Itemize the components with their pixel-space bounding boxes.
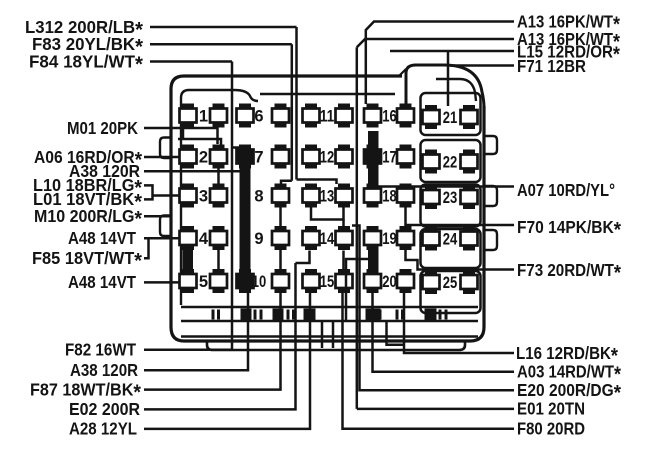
svg-text:14: 14 — [320, 230, 335, 248]
terminal 25 cavity box — [421, 271, 481, 313]
right mounting tab middle — [484, 186, 497, 206]
wire col4 bar elbow lower — [346, 259, 368, 322]
shell inner wall middle top edge — [260, 93, 395, 96]
wire terminal4-5 right clip chain — [217, 250, 220, 270]
wire L10/L01 bracket — [144, 185, 153, 199]
wire L312 horizontal — [150, 26, 297, 29]
black link bar col2 (terminals 7-10) — [240, 146, 251, 270]
svg-text:A38 120R: A38 120R — [70, 360, 138, 380]
wire M01 to terminal 2 top — [144, 128, 218, 144]
raised section left seam — [399, 69, 406, 76]
terminal 13 — [303, 184, 353, 208]
wire M10 to body tab — [144, 215, 171, 218]
wire F85 with hook — [144, 238, 149, 258]
svg-text:7: 7 — [254, 148, 263, 166]
svg-text:11: 11 — [320, 107, 335, 125]
shell inner wall left and top — [181, 90, 258, 305]
svg-text:21: 21 — [443, 109, 458, 127]
wire A07 to col4 link bar — [378, 185, 514, 188]
svg-text:2: 2 — [199, 148, 208, 166]
svg-text:23: 23 — [443, 189, 458, 207]
terminal 24 cavity box — [421, 229, 481, 268]
wire A38 to col2 link bar — [144, 170, 241, 173]
svg-text:24: 24 — [443, 230, 458, 248]
connector shell raised top-right section — [406, 65, 484, 108]
terminal 20 — [364, 269, 414, 293]
svg-text:25: 25 — [443, 274, 458, 292]
bottom rail dark blocks — [241, 309, 437, 321]
terminal 10 — [237, 269, 290, 293]
black link bar col4 lower (terminals 19-20) — [368, 250, 379, 270]
wire L312 vertical drop — [295, 27, 298, 180]
wire F71 horizontal — [450, 64, 514, 67]
svg-text:8: 8 — [254, 187, 263, 205]
svg-text:10: 10 — [252, 273, 267, 291]
wire terminal13-14 right clip link — [342, 220, 345, 228]
svg-text:9: 9 — [254, 230, 263, 248]
terminal 24 — [423, 227, 478, 251]
wire F83 jog to terminal 8 — [281, 181, 292, 185]
connector body outer shell — [171, 76, 484, 341]
svg-text:15: 15 — [320, 273, 335, 291]
terminal 17 — [364, 145, 414, 169]
terminal 12 — [303, 145, 353, 169]
wire F73 from terminal 19 — [406, 250, 515, 270]
svg-text:F80 20RD: F80 20RD — [517, 419, 585, 439]
svg-text:17: 17 — [382, 148, 397, 166]
wire F82 horizontal — [144, 348, 232, 351]
bottom rib rail upper line — [181, 306, 478, 309]
svg-text:A07 10RD/YL°: A07 10RD/YL° — [517, 180, 615, 200]
left mounting tab lower — [160, 216, 171, 237]
wire A48 upper to terminal 4 — [144, 237, 180, 240]
terminal 9 — [254, 226, 289, 250]
terminal 5 — [180, 269, 228, 293]
wire A48 lower to terminal 5 — [144, 281, 180, 284]
terminal 22 — [423, 150, 478, 174]
terminal 19 — [364, 226, 414, 250]
raised section inner corner line — [436, 79, 476, 101]
right mounting tab upper — [484, 136, 497, 154]
wire F87 from terminal 10 — [144, 293, 281, 390]
black link bar col1 (terminals 4-5) — [183, 248, 194, 271]
terminal 14 — [303, 226, 353, 250]
wire A06 to terminal 2 — [144, 156, 180, 159]
wire bracket to terminal 3 — [153, 194, 181, 197]
terminal 1 — [180, 104, 228, 128]
wire F80 from terminal 15 — [343, 293, 515, 429]
wire A03 from terminal 20 left — [373, 293, 515, 372]
svg-text:M01 20PK: M01 20PK — [67, 118, 138, 138]
wire A13-2/E01 long vertical — [356, 47, 359, 409]
wire A38 lower from link bar — [144, 272, 248, 370]
terminal 18 — [364, 184, 414, 208]
bottom inner line — [181, 335, 478, 338]
terminal 23 — [423, 185, 478, 209]
wire terminal1 left clip to terminal2 right clip — [178, 128, 221, 145]
terminal 4 — [180, 226, 228, 250]
wire L312 jog to terminal 13 — [297, 180, 337, 185]
wire F84/F82 long vertical — [231, 62, 234, 350]
wire E20 vertical — [352, 226, 514, 391]
terminal 25 — [423, 270, 478, 294]
terminal 21 cavity box — [421, 93, 481, 135]
svg-text:22: 22 — [443, 153, 458, 171]
wire L15 horizontal — [390, 50, 514, 53]
terminal 23 cavity box — [421, 185, 481, 227]
wire F84 horizontal — [150, 60, 232, 63]
svg-text:F82 16WT: F82 16WT — [65, 340, 136, 360]
wire stub below band left — [321, 322, 324, 348]
wire A13 first — [366, 22, 514, 105]
svg-text:19: 19 — [382, 230, 397, 248]
left mounting tab upper — [160, 138, 171, 159]
wire E02 exit — [144, 263, 296, 409]
svg-text:A28 12YL: A28 12YL — [69, 419, 137, 439]
wire L16 from terminal 20 — [404, 293, 514, 353]
wire A28 from terminal 15 left — [144, 293, 310, 429]
wire F83 vertical drop — [291, 44, 294, 181]
right mounting tab lower — [484, 230, 497, 250]
svg-text:20: 20 — [382, 273, 397, 291]
wire terminal14 left clip jog to E02 exit — [296, 251, 310, 264]
svg-text:4: 4 — [199, 230, 209, 248]
terminal 6 — [237, 104, 290, 128]
bottom rib rail lower line — [181, 320, 478, 323]
wire F83 horizontal — [150, 43, 292, 46]
terminal 2 — [180, 145, 228, 169]
wire L16 companion jog — [387, 321, 405, 345]
wire stub below band right — [332, 322, 335, 348]
terminal 8 — [254, 184, 289, 208]
svg-text:13: 13 — [320, 187, 335, 205]
svg-text:1: 1 — [199, 107, 208, 125]
svg-text:6: 6 — [254, 107, 263, 125]
wire terminal8-9 right clip chain — [279, 208, 282, 227]
terminal 11 — [303, 104, 353, 128]
svg-text:A48 14VT: A48 14VT — [68, 272, 136, 292]
wire terminal2-3 right clip chain — [217, 168, 220, 185]
terminal 22 cavity box — [421, 140, 481, 182]
bottom lip — [207, 341, 465, 350]
wire terminal14-15 right clip link — [342, 251, 345, 271]
terminal 16 — [364, 104, 414, 128]
terminal 3 — [180, 184, 228, 208]
svg-text:E02 200R: E02 200R — [69, 399, 140, 419]
wire F70 from terminal 18 — [406, 208, 515, 226]
svg-text:16: 16 — [382, 107, 397, 125]
wire E01 horizontal exit — [357, 408, 514, 411]
svg-text:3: 3 — [199, 187, 208, 205]
terminal 15 — [303, 269, 353, 293]
wire terminal9-10 right clip chain — [279, 250, 282, 270]
black link bar col4 upper (terminals 16-18) — [368, 131, 379, 184]
wire L15 drop to terminal 21 — [447, 52, 450, 107]
wire F84 elbow into link bar — [232, 146, 241, 149]
svg-text:5: 5 — [199, 273, 208, 291]
svg-text:E01 20TN: E01 20TN — [517, 399, 585, 419]
svg-text:18: 18 — [382, 187, 397, 205]
svg-text:12: 12 — [320, 148, 335, 166]
terminal 7 — [237, 145, 290, 169]
svg-text:F71 12BR: F71 12BR — [517, 56, 586, 76]
terminal 21 — [423, 105, 478, 129]
svg-text:A48 14VT: A48 14VT — [68, 228, 136, 248]
wire A13 second — [357, 39, 514, 47]
bottom rail tick marks — [212, 310, 448, 320]
wire U-link under terminal 13 — [311, 208, 344, 220]
